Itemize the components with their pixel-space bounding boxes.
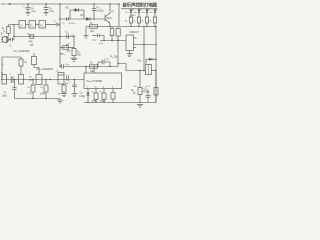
ground under C8 [44,12,49,15]
svg-text:C₂: C₂ [53,21,56,23]
svg-text:IC₃ CT4069: IC₃ CT4069 [87,79,103,83]
svg-text:+: + [23,5,25,8]
resistor R3 [19,57,27,75]
capacitor C5 tall box [56,71,64,84]
LED VL3 [142,8,150,17]
svg-text:C₈: C₈ [2,64,5,66]
node junction feedback x62 [59,36,60,37]
inverter F2 [29,21,36,29]
svg-text:1k: 1k [3,31,6,33]
label IC2 CD4069 [37,67,53,71]
wire L-link from x118 [118,64,146,71]
svg-text:10k: 10k [134,86,138,88]
capacitor C8 [44,4,55,13]
diode VD3 [80,14,90,21]
wire F2-F3 [36,24,40,26]
capacitor C7 [23,4,36,13]
box B series [19,75,24,85]
wire pot row [60,47,74,49]
resistor R12 [141,17,149,27]
svg-text:R₃: R₃ [25,62,28,64]
svg-text:V₁: V₁ [111,10,114,13]
svg-text:0.022μ: 0.022μ [69,23,76,25]
potentiometer RP2 [61,43,72,55]
svg-text:47k: 47k [67,50,72,53]
svg-text:R₁₄: R₁₄ [131,90,134,92]
resistor R16 [92,89,98,103]
svg-text:CD4017: CD4017 [129,30,139,34]
svg-text:R₈ 20k: R₈ 20k [111,56,119,58]
node junction F1 input [13,24,14,25]
wire bottom-right rail [84,102,156,104]
svg-text:R₅: R₅ [90,23,93,25]
inverter F1 [19,21,26,29]
label IC1 [14,49,30,53]
node +6V label [0,2,5,6]
wire top-left stub [2,56,21,58]
svg-text:4700μ: 4700μ [143,92,150,94]
resistor R1 [2,25,10,37]
svg-text:47μ: 47μ [31,10,36,13]
svg-text:0.33μ: 0.33μ [79,96,85,98]
svg-text:C₁₀: C₁₀ [62,23,65,25]
resistor R6 [116,27,120,67]
svg-text:0.1μ: 0.1μ [65,64,70,66]
wire top rail [7,3,119,5]
resistor R11 [133,17,141,27]
capacitor C13b stub [98,58,110,66]
diode VD2 [65,7,84,19]
wire emitter row [86,26,118,28]
svg-text:C₆: C₆ [69,81,72,83]
LED VL4 [150,8,158,17]
label C14 [79,93,85,98]
svg-text:R₇: R₇ [28,87,31,89]
svg-text:C₃: C₃ [4,92,7,94]
svg-text:F₂: F₂ [31,24,34,27]
svg-text:R₆: R₆ [29,77,32,79]
svg-text:VL₄: VL₄ [150,12,154,14]
IC3 box [84,73,122,89]
ground under IC2 [127,51,133,57]
svg-text:4.7k: 4.7k [99,44,104,46]
svg-text:9: 9 [87,87,88,89]
svg-text:0.1μ: 0.1μ [49,10,54,13]
wire right bus x156 [155,27,157,103]
svg-text:R₁: R₁ [2,28,5,30]
inverter F3 [39,21,46,29]
capacitor C2 [53,21,60,27]
diode VD4 [146,58,157,65]
capacitor C12 [65,31,75,39]
resistor hang x64 [58,84,66,96]
wire C1 to F1 input [9,25,20,40]
capacitor C10 series [62,17,76,25]
resistor R5b box [32,53,40,75]
svg-text:+6V: +6V [0,2,5,6]
ground bottom-right [137,104,143,107]
resistor R5 [90,23,98,33]
wire LED feed [118,4,120,27]
wire LED bottom bus [119,26,156,28]
svg-text:9013: 9013 [106,17,112,20]
resistor R7 [110,27,114,41]
resistor R9 on mid rail [90,63,98,73]
relay K driver box [134,65,157,89]
LED VL2 [134,8,142,17]
wire feed row [100,40,126,42]
svg-text:100μ: 100μ [2,95,8,97]
node junction C7 [27,3,28,4]
capacitor C11 [92,4,104,20]
svg-text:0.1μ: 0.1μ [71,35,76,37]
capacitor C1 [9,38,14,48]
node junction bus x74 top [73,36,74,37]
wire vertical bus x74 [73,37,75,49]
ground at x86 [84,27,89,39]
resistor R18 [111,89,115,103]
svg-text:1M: 1M [30,44,33,47]
node junction bus top [59,3,60,4]
resistor R13 [149,17,157,27]
svg-text:C₅: C₅ [56,71,59,73]
wire F3 output [46,24,57,26]
label R8 [111,56,119,58]
svg-text:R₁₂: R₁₂ [141,20,144,22]
wire LED top bus [121,8,157,10]
resistor hang x46 [40,79,48,99]
svg-text:F₁: F₁ [21,24,24,27]
caption chinese title [122,1,157,8]
wire F1-F2 [26,24,30,26]
LED VL1 [125,8,134,17]
wire IC3 top pins [85,67,87,74]
capacitor C13 [92,34,104,42]
svg-text:音乐声控彩灯电路: 音乐声控彩灯电路 [122,1,157,8]
transistor V1 [105,3,114,26]
capacitor C15 [143,88,151,102]
svg-text:R₁₃: R₁₃ [149,20,152,22]
wire vertical bus x62 [59,4,61,67]
svg-text:8: 8 [112,87,113,89]
svg-text:C₁₄: C₁₄ [80,93,83,95]
resistor hang x33 [27,79,35,99]
resistor R17 [100,89,106,103]
svg-text:0.1μ: 0.1μ [92,39,97,41]
capacitor C5b plates [65,74,69,85]
label C8b [2,64,5,66]
potentiometer RP1 [28,33,34,47]
wire feedback line [14,36,74,38]
capacitor C4 [9,74,13,83]
wire base row [60,18,105,20]
svg-text:VD₄: VD₄ [137,60,141,63]
svg-text:C₁: C₁ [9,44,12,47]
svg-text:RP₂: RP₂ [61,53,65,56]
wire left rail [1,57,3,80]
svg-text:VL₃: VL₃ [142,12,146,14]
wire mid rail [60,66,62,68]
ground bottom-left [57,99,63,104]
svg-text:(LED): (LED) [130,15,136,17]
svg-text:C₄: C₄ [9,74,12,76]
svg-text:R₁₀: R₁₀ [125,20,128,22]
wire vertical x144 [143,27,145,71]
node junction feedback left [13,36,14,37]
node junction C11 rail [93,3,94,4]
wire bottom-left row [1,79,84,81]
microphone B [1,33,9,43]
wire top rail arrowhead [7,3,11,5]
label CD4017 [129,30,139,34]
svg-text:R₈: R₈ [41,87,44,89]
wire mic output [9,39,11,41]
svg-text:R₉: R₉ [90,63,93,65]
svg-text:VD₃: VD₃ [80,14,84,17]
svg-text:+C₁₅: +C₁₅ [143,88,148,90]
ground under C6 [72,94,78,97]
svg-text:10k: 10k [77,54,82,57]
svg-text:F₃: F₃ [41,24,44,27]
svg-text:1k: 1k [58,94,61,96]
svg-text:1k: 1k [133,93,136,95]
resistor R2 box [1,73,7,84]
svg-text:R₂: R₂ [1,73,4,75]
node junction C8 [45,3,46,4]
svg-text:0.022μ: 0.022μ [96,9,104,12]
ground under C7 [26,12,31,15]
resistor R4 [71,49,82,62]
node junction drop [14,79,15,80]
IC2 CD4017 box [126,35,156,51]
ground under x64 [61,94,67,97]
resistor R10a [125,17,133,27]
resistor R14 [131,70,142,103]
capacitor C3 [2,80,17,99]
svg-text:R₁₁: R₁₁ [133,20,136,22]
node junction mid row [49,79,50,80]
capacitor C6 [69,79,77,94]
svg-text:VL₁: VL₁ [125,12,129,14]
svg-text:11: 11 [103,87,105,89]
svg-text:4.7k: 4.7k [27,93,32,95]
svg-text:100k: 100k [40,93,46,95]
wire bottom-left rail [15,98,61,100]
svg-text:20k: 20k [90,31,95,33]
svg-text:VL₂: VL₂ [134,12,138,14]
svg-text:+: + [65,74,67,76]
label LED note [130,15,136,17]
resistor R6b tall box [29,75,42,85]
svg-text:IC₁ CD4069: IC₁ CD4069 [14,49,30,53]
resistor R15 [154,71,158,103]
svg-text:10: 10 [95,87,97,89]
label VD4 [137,60,141,63]
svg-text:C₁₂: C₁₂ [65,31,69,34]
diode VD5 [87,89,90,103]
svg-text:VD₂: VD₂ [65,7,69,10]
svg-text:0.1μ: 0.1μ [105,58,110,60]
